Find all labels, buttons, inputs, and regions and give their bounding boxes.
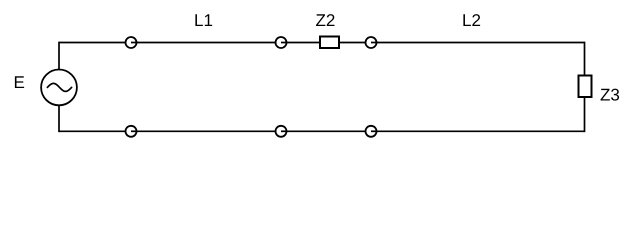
svg-text:E: E xyxy=(14,73,25,92)
wire left vertical lower xyxy=(58,105,60,132)
node T2 top xyxy=(276,37,288,48)
wire right vertical upper xyxy=(584,42,586,76)
wire bottom segment xyxy=(59,130,585,132)
source E xyxy=(41,70,77,106)
wire top-right segment xyxy=(339,42,585,44)
node B1 bottom xyxy=(126,126,138,137)
node B3 bottom xyxy=(366,126,378,137)
svg-text:L1: L1 xyxy=(194,11,213,30)
node T1 top xyxy=(126,37,138,48)
wire right vertical lower xyxy=(584,97,586,132)
node B2 bottom xyxy=(276,126,288,137)
svg-text:L2: L2 xyxy=(462,11,481,30)
wire top-left segment xyxy=(59,42,320,44)
wire left vertical upper xyxy=(58,42,60,70)
component Z3 box xyxy=(579,76,592,98)
svg-text:Z2: Z2 xyxy=(316,11,336,30)
node T3 top xyxy=(366,37,378,48)
component Z2 box xyxy=(320,37,339,49)
svg-text:Z3: Z3 xyxy=(600,86,620,105)
